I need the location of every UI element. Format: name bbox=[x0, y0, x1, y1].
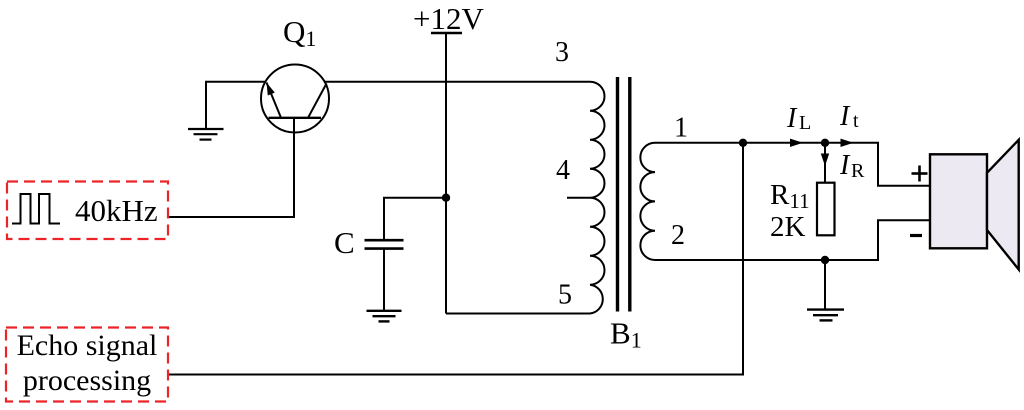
wire: collector to transformer pin 3 bbox=[324, 81, 590, 83]
speaker body bbox=[930, 154, 987, 248]
transformer B1 primary winding bbox=[590, 82, 605, 314]
ground (emitter) bbox=[188, 129, 224, 140]
node: junction R bottom bbox=[821, 256, 829, 264]
svg-text:1: 1 bbox=[674, 113, 688, 144]
transformer core bbox=[618, 77, 630, 312]
node: junction R top bbox=[821, 139, 829, 147]
resistor R11 bbox=[817, 183, 835, 236]
svg-text:C: C bbox=[334, 225, 355, 260]
svg-text:5: 5 bbox=[558, 280, 572, 311]
arrow IR bbox=[821, 154, 829, 167]
capacitor C bbox=[365, 240, 404, 248]
wire: tap 4 stub bbox=[567, 197, 590, 199]
svg-text:4: 4 bbox=[556, 155, 570, 186]
box: Echo signal processing bbox=[6, 328, 168, 402]
wire: junction to capacitor bbox=[384, 198, 446, 239]
wire: echo signal line bbox=[168, 143, 743, 375]
svg-text:I: I bbox=[839, 150, 851, 181]
svg-text:processing: processing bbox=[23, 364, 151, 397]
svg-text:t: t bbox=[853, 110, 859, 132]
transistor Q1 bbox=[261, 65, 329, 133]
power rail bar bbox=[431, 32, 462, 34]
svg-text:R: R bbox=[851, 160, 865, 182]
label - terminal bbox=[910, 234, 922, 237]
wire: bottom rail to transformer pin 5 bbox=[446, 313, 590, 315]
node: junction echo line bbox=[739, 139, 747, 147]
ground (capacitor) bbox=[367, 311, 402, 322]
wire: secondary top (pin 1) to speaker + bbox=[655, 143, 930, 186]
speaker horn bbox=[987, 140, 1019, 270]
pulse waveform icon bbox=[12, 194, 60, 224]
box: 40kHz source bbox=[7, 182, 168, 240]
svg-text:I: I bbox=[839, 101, 851, 132]
arrow IL bbox=[790, 139, 803, 147]
wire: emitter to ground bbox=[206, 82, 265, 128]
wire: +12V vertical rail bbox=[445, 33, 447, 314]
wire: base lead down to 40kHz source bbox=[168, 118, 294, 217]
node: junction +12V / C bbox=[442, 194, 450, 202]
svg-text:2K: 2K bbox=[770, 211, 806, 243]
wire: capacitor to ground bbox=[383, 249, 385, 310]
svg-text:3: 3 bbox=[555, 37, 569, 68]
transformer B1 secondary winding bbox=[640, 143, 655, 260]
svg-text:40kHz: 40kHz bbox=[75, 193, 158, 228]
svg-text:L: L bbox=[799, 112, 811, 134]
svg-text:+12V: +12V bbox=[413, 1, 484, 36]
wire: R bottom to ground bbox=[824, 260, 826, 309]
svg-text:2: 2 bbox=[671, 220, 685, 251]
wire: secondary bottom (pin 2) to speaker - bbox=[655, 220, 930, 260]
wire: junction to R top bbox=[824, 143, 826, 183]
label + terminal bbox=[912, 166, 928, 182]
svg-text:Echo signal: Echo signal bbox=[17, 329, 158, 362]
arrow It bbox=[841, 139, 854, 147]
ground (R11) bbox=[807, 310, 844, 321]
svg-text:I: I bbox=[786, 103, 798, 134]
